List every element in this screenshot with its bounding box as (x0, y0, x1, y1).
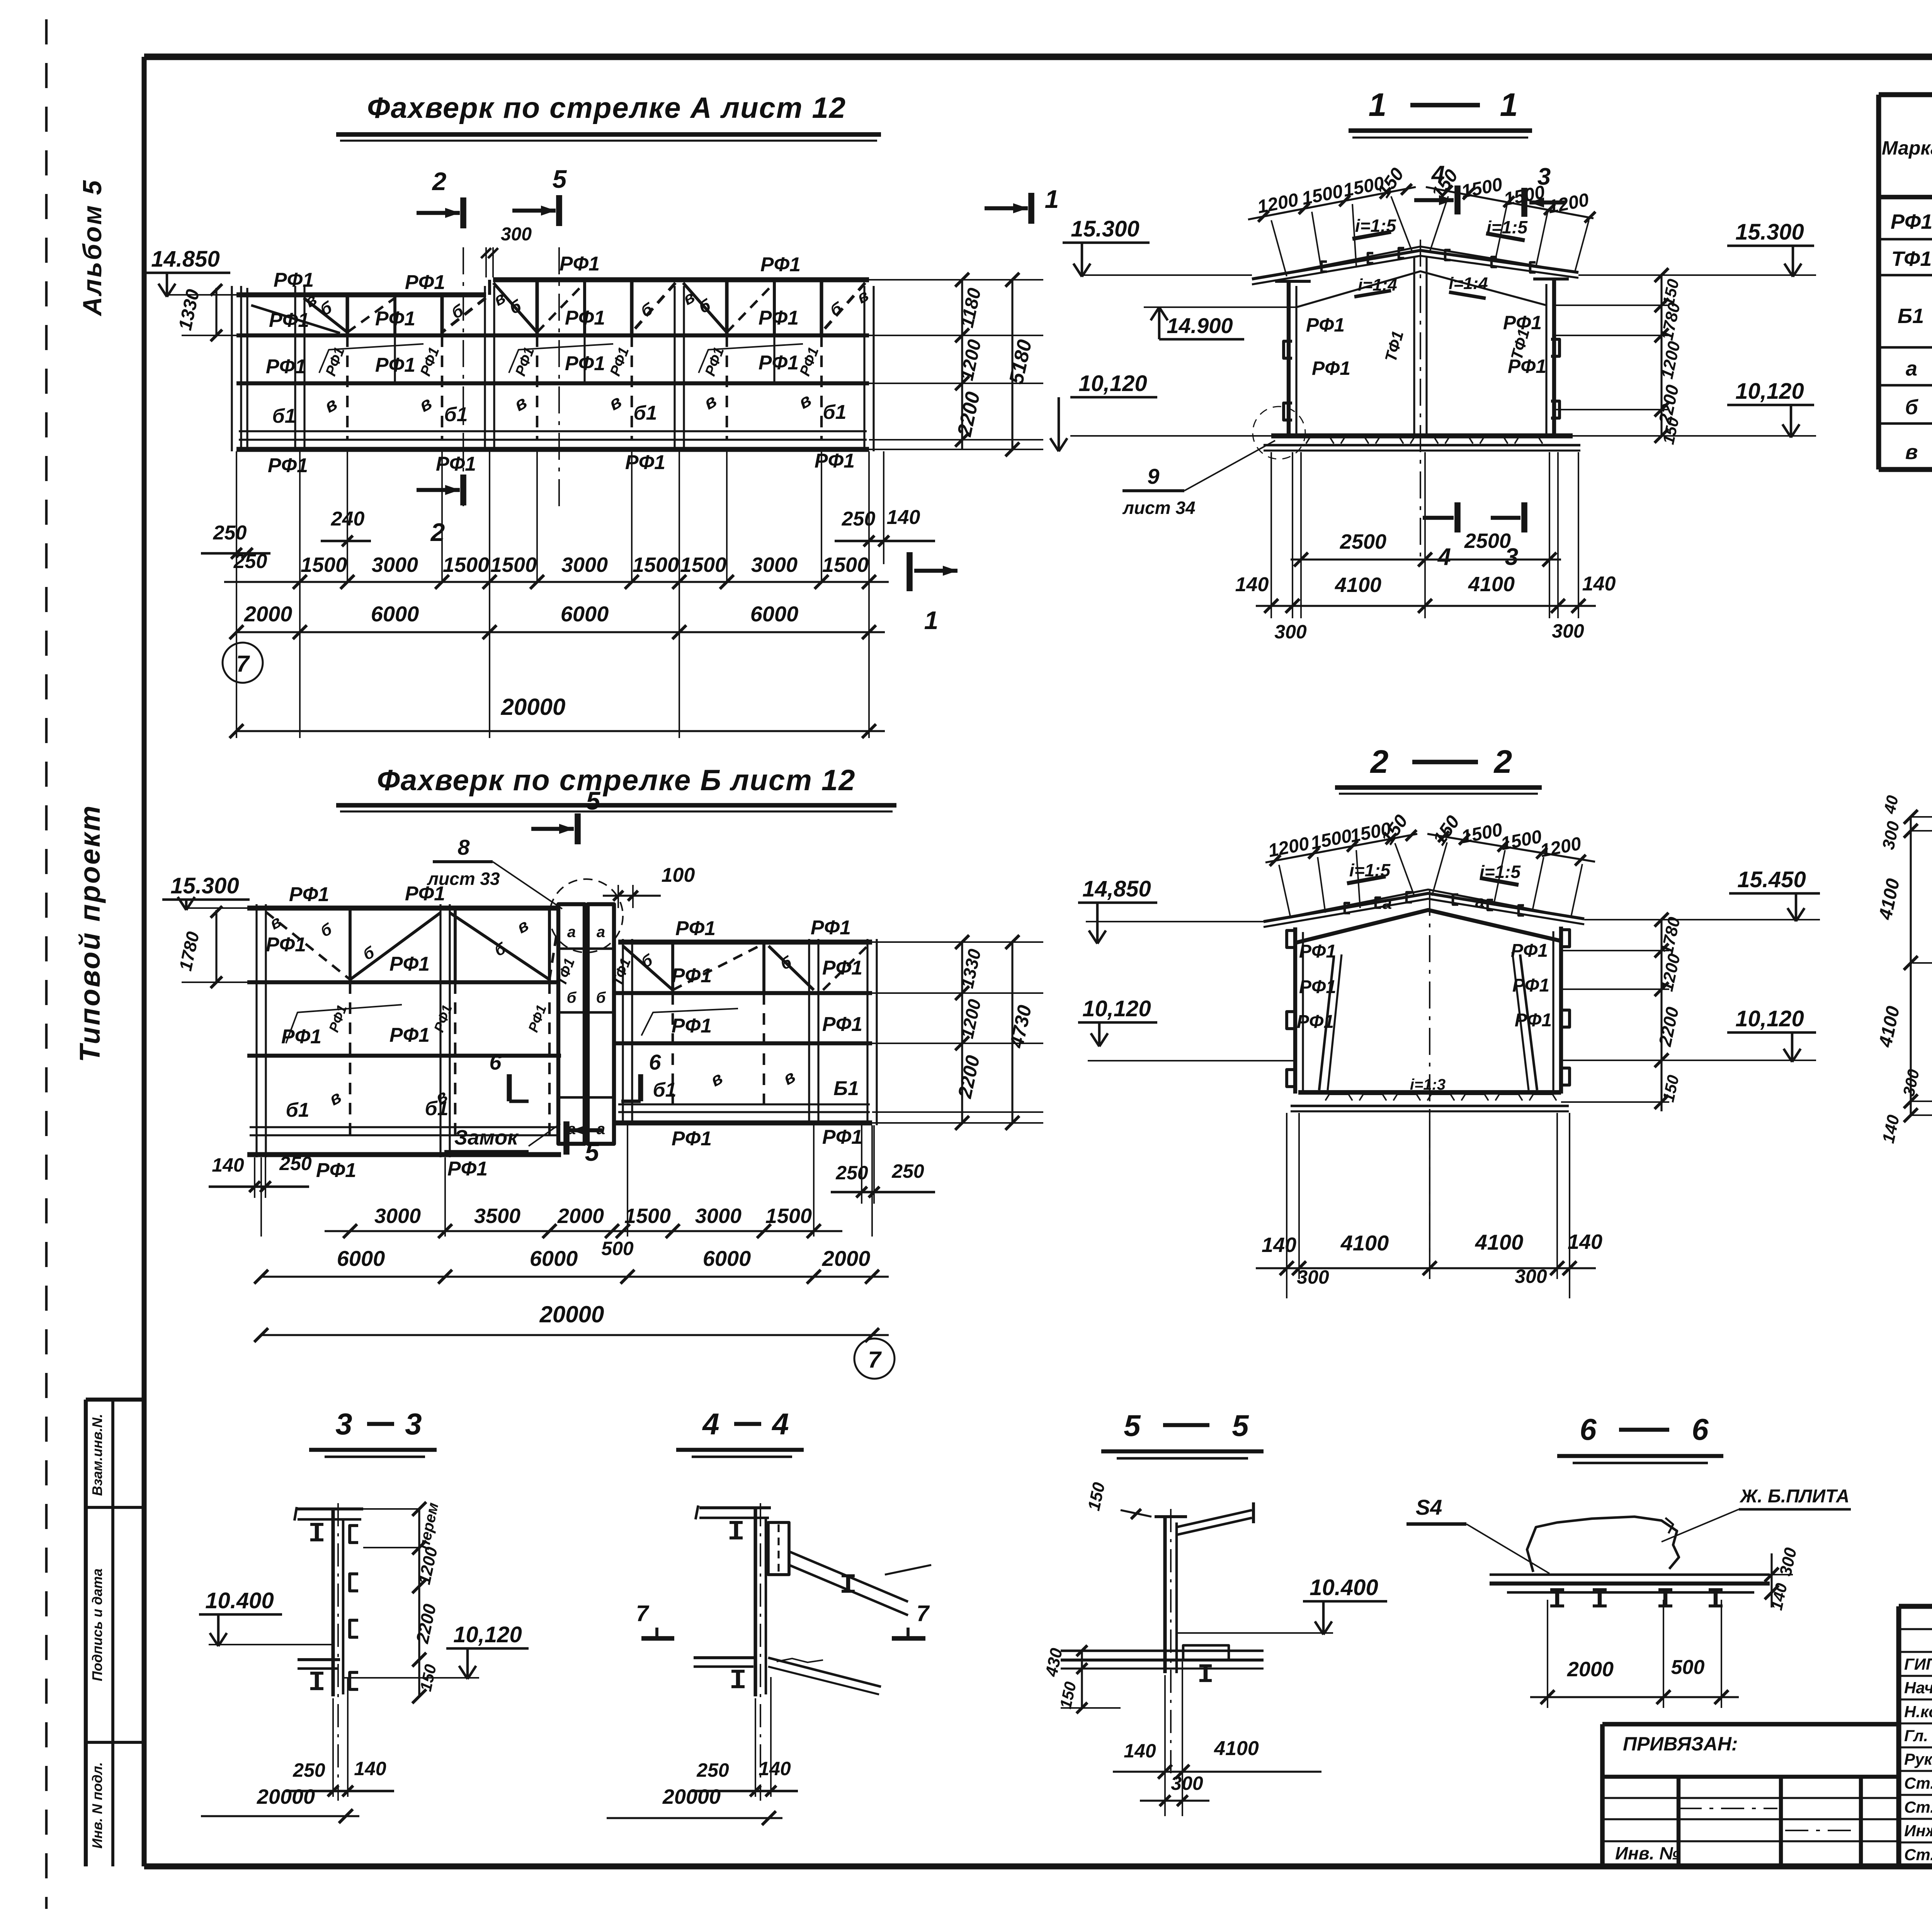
svg-text:РФ1: РФ1 (1299, 941, 1336, 962)
svg-text:1500: 1500 (633, 553, 679, 577)
svg-text:250: 250 (293, 1759, 325, 1781)
svg-text:6: 6 (1692, 1412, 1709, 1446)
svg-text:10.400: 10.400 (1310, 1575, 1378, 1600)
svg-text:300: 300 (1297, 1266, 1329, 1288)
svg-text:РФ1: РФ1 (822, 1126, 862, 1148)
svg-text:1500: 1500 (1309, 826, 1354, 854)
svg-text:6000: 6000 (750, 602, 799, 626)
svg-text:2200: 2200 (954, 1053, 984, 1101)
svg-text:б: б (1905, 396, 1918, 419)
svg-text:1: 1 (1369, 87, 1387, 123)
svg-text:250: 250 (842, 508, 876, 530)
svg-text:в: в (510, 392, 531, 415)
svg-text:РФ1: РФ1 (672, 1128, 712, 1150)
svg-text:Ж. Б.ПЛИТА: Ж. Б.ПЛИТА (1739, 1486, 1850, 1507)
svg-text:в: в (266, 912, 285, 934)
svg-text:300: 300 (1900, 1068, 1923, 1098)
svg-text:1200: 1200 (957, 997, 985, 1040)
svg-text:2200: 2200 (1655, 1005, 1682, 1048)
svg-text:а: а (1475, 892, 1485, 911)
svg-text:РФ1: РФ1 (326, 1003, 350, 1034)
svg-text:3: 3 (335, 1407, 352, 1441)
svg-text:4100: 4100 (1214, 1737, 1259, 1760)
svg-text:Альбом 5: Альбом 5 (78, 179, 107, 316)
svg-text:5: 5 (586, 786, 601, 815)
svg-text:РФ1: РФ1 (815, 450, 855, 472)
svg-text:500: 500 (1671, 1656, 1705, 1679)
svg-text:РФ1: РФ1 (565, 352, 605, 375)
svg-text:Подпись и дата: Подпись и дата (89, 1568, 105, 1681)
svg-text:20000: 20000 (257, 1785, 315, 1808)
svg-text:5: 5 (553, 165, 567, 193)
svg-text:2200: 2200 (953, 390, 985, 439)
svg-text:Б1: Б1 (833, 1077, 859, 1100)
svg-text:в: в (325, 1087, 345, 1109)
svg-text:в: в (605, 391, 625, 414)
svg-text:1500: 1500 (1300, 181, 1345, 209)
svg-text:1200: 1200 (1539, 833, 1583, 861)
svg-text:1500: 1500 (822, 553, 869, 577)
svg-text:1: 1 (924, 606, 939, 634)
svg-text:2: 2 (432, 167, 447, 196)
svg-text:4100: 4100 (1340, 1231, 1389, 1255)
svg-text:250: 250 (891, 1160, 924, 1182)
svg-text:РФ1: РФ1 (389, 1024, 430, 1046)
svg-text:лист 33: лист 33 (427, 869, 500, 889)
svg-text:1200: 1200 (1256, 190, 1300, 218)
svg-text:в: в (1905, 441, 1918, 464)
svg-text:1500: 1500 (765, 1204, 812, 1228)
svg-text:4100: 4100 (1475, 1230, 1524, 1254)
svg-text:РФ1: РФ1 (417, 345, 443, 378)
svg-text:10,120: 10,120 (453, 1622, 522, 1647)
svg-text:1500: 1500 (680, 553, 726, 577)
svg-text:140: 140 (212, 1154, 244, 1176)
svg-text:в: в (415, 393, 435, 416)
svg-text:РФ1: РФ1 (405, 271, 445, 294)
svg-text:б1: б1 (272, 405, 296, 427)
svg-text:300: 300 (1171, 1772, 1203, 1794)
svg-text:РФ1: РФ1 (431, 1003, 455, 1034)
svg-text:3000: 3000 (751, 553, 798, 577)
svg-text:3000: 3000 (372, 553, 418, 577)
svg-text:а: а (1383, 894, 1392, 913)
svg-text:Б1: Б1 (1898, 304, 1924, 328)
svg-text:1780: 1780 (175, 930, 203, 973)
svg-text:Марка: Марка (1882, 137, 1932, 159)
svg-text:10.400: 10.400 (205, 1588, 274, 1613)
svg-text:ПРИВЯЗАН:: ПРИВЯЗАН: (1623, 1733, 1738, 1755)
svg-text:430: 430 (1042, 1646, 1066, 1678)
svg-text:РФ1: РФ1 (1891, 210, 1932, 233)
svg-text:300: 300 (1274, 621, 1307, 643)
svg-text:150: 150 (1378, 811, 1412, 848)
svg-text:в: в (795, 390, 815, 413)
svg-text:б: б (317, 298, 335, 320)
svg-text:140: 140 (759, 1758, 791, 1779)
svg-text:3000: 3000 (561, 553, 608, 577)
svg-text:6000: 6000 (530, 1246, 578, 1271)
svg-text:а: а (1906, 357, 1917, 380)
svg-text:1500: 1500 (1499, 827, 1544, 854)
svg-text:РФ1: РФ1 (1515, 1010, 1552, 1031)
svg-text:4: 4 (1437, 544, 1451, 570)
svg-text:40: 40 (1880, 794, 1902, 815)
svg-text:РФ1: РФ1 (269, 309, 309, 332)
svg-text:РФ1: РФ1 (512, 345, 538, 378)
svg-text:РФ1: РФ1 (447, 1158, 488, 1180)
svg-text:ТФ1: ТФ1 (1891, 247, 1932, 270)
svg-text:Ст. инж.: Ст. инж. (1904, 1798, 1932, 1816)
svg-text:РФ1: РФ1 (822, 957, 862, 979)
svg-text:6: 6 (1580, 1412, 1597, 1446)
svg-text:б1: б1 (444, 403, 468, 426)
svg-text:i=1:4: i=1:4 (1449, 274, 1488, 293)
svg-text:300: 300 (1552, 620, 1584, 642)
svg-text:3000: 3000 (695, 1204, 742, 1228)
svg-text:4: 4 (1431, 161, 1445, 188)
svg-text:РФ1: РФ1 (672, 1015, 712, 1037)
svg-text:РФ1: РФ1 (323, 345, 348, 378)
svg-text:140: 140 (1568, 1230, 1602, 1254)
svg-text:б: б (449, 301, 467, 323)
svg-text:140: 140 (1582, 573, 1616, 595)
svg-text:РФ1: РФ1 (759, 307, 799, 329)
svg-text:б1: б1 (653, 1079, 676, 1101)
svg-text:РФ1: РФ1 (1312, 357, 1350, 379)
svg-text:РФ1: РФ1 (607, 345, 633, 378)
svg-text:РФ1: РФ1 (268, 454, 308, 477)
svg-text:1500: 1500 (490, 553, 537, 577)
svg-text:РФ1: РФ1 (375, 354, 415, 376)
svg-text:2000: 2000 (557, 1204, 604, 1228)
svg-text:10,120: 10,120 (1735, 1006, 1804, 1031)
svg-text:500: 500 (601, 1238, 634, 1259)
svg-text:3000: 3000 (374, 1204, 421, 1228)
svg-text:140: 140 (1124, 1740, 1156, 1762)
svg-text:2: 2 (1493, 743, 1512, 780)
svg-text:а: а (567, 924, 576, 941)
svg-text:140: 140 (354, 1758, 386, 1779)
svg-text:250: 250 (213, 522, 247, 544)
svg-text:РФ1: РФ1 (389, 953, 430, 975)
svg-text:1500: 1500 (301, 553, 347, 577)
svg-text:250: 250 (279, 1153, 312, 1174)
svg-text:РФ1: РФ1 (375, 308, 415, 330)
svg-text:6000: 6000 (371, 602, 419, 626)
svg-text:4100: 4100 (1335, 573, 1381, 597)
svg-text:1: 1 (1045, 185, 1059, 213)
svg-text:ГИП: ГИП (1904, 1655, 1932, 1673)
svg-text:в: в (700, 390, 720, 413)
svg-text:100: 100 (662, 864, 695, 886)
svg-text:14,850: 14,850 (1082, 876, 1151, 902)
svg-text:РФ1: РФ1 (822, 1013, 862, 1036)
svg-text:РФ1: РФ1 (274, 269, 314, 291)
svg-text:Инв. N подл.: Инв. N подл. (89, 1762, 105, 1849)
svg-text:1500: 1500 (443, 553, 489, 577)
svg-text:15.300: 15.300 (1071, 216, 1139, 242)
svg-text:б1: б1 (823, 401, 846, 424)
svg-text:б: б (638, 951, 655, 971)
svg-text:5180: 5180 (1005, 338, 1036, 386)
svg-text:Типовой проект: Типовой проект (74, 804, 106, 1062)
svg-text:РФ1: РФ1 (316, 1159, 356, 1182)
svg-text:1180: 1180 (957, 286, 985, 329)
svg-text:1200: 1200 (957, 338, 985, 383)
svg-text:РФ1: РФ1 (565, 307, 605, 329)
svg-text:7: 7 (868, 1347, 882, 1373)
svg-text:б1: б1 (286, 1099, 309, 1121)
svg-text:250: 250 (835, 1162, 868, 1184)
svg-text:15.300: 15.300 (1735, 219, 1804, 245)
svg-text:5: 5 (1232, 1408, 1249, 1442)
svg-text:1330: 1330 (957, 947, 985, 990)
svg-text:Инв. №: Инв. № (1615, 1843, 1680, 1863)
svg-text:Замок: Замок (454, 1126, 519, 1149)
svg-text:140: 140 (1879, 1113, 1903, 1145)
svg-text:Ст. инж.: Ст. инж. (1904, 1774, 1932, 1792)
svg-text:5: 5 (1124, 1408, 1141, 1442)
svg-text:РФ1: РФ1 (289, 883, 329, 906)
svg-text:1200: 1200 (1267, 833, 1311, 861)
svg-text:150: 150 (1056, 1680, 1080, 1710)
svg-text:7: 7 (236, 651, 250, 677)
svg-text:Н.контр.: Н.контр. (1904, 1703, 1932, 1721)
svg-text:2500: 2500 (1464, 529, 1511, 553)
svg-text:в: в (514, 916, 532, 937)
svg-text:Фахверк по стрелке Б лист: Фахверк по стрелке Б лист 12 (377, 764, 856, 797)
svg-text:300: 300 (1515, 1266, 1547, 1287)
svg-text:6000: 6000 (561, 602, 609, 626)
svg-text:3: 3 (1537, 163, 1551, 190)
svg-text:4100: 4100 (1875, 1004, 1904, 1050)
svg-text:2500: 2500 (1340, 530, 1386, 553)
svg-text:РФ1: РФ1 (1299, 977, 1336, 997)
svg-text:2: 2 (1370, 743, 1389, 780)
svg-text:4100: 4100 (1468, 573, 1515, 596)
svg-text:Гл. спец.: Гл. спец. (1904, 1726, 1932, 1745)
svg-text:300: 300 (1776, 1546, 1800, 1578)
svg-text:1: 1 (1500, 87, 1518, 123)
svg-text:150: 150 (1084, 1480, 1109, 1512)
svg-text:250: 250 (696, 1759, 729, 1781)
svg-text:3: 3 (405, 1407, 422, 1441)
svg-text:300: 300 (1879, 819, 1903, 851)
svg-text:Фахверк по стрелке А: Фахверк по стрелке А лист 12 (367, 92, 846, 124)
svg-text:РФ1: РФ1 (702, 345, 728, 378)
svg-text:300: 300 (501, 224, 532, 245)
svg-text:РФ1: РФ1 (797, 345, 822, 378)
svg-text:10,120: 10,120 (1735, 379, 1804, 404)
svg-text:10,120: 10,120 (1082, 996, 1151, 1021)
svg-text:10,120: 10,120 (1078, 371, 1147, 396)
svg-text:2000: 2000 (244, 602, 293, 626)
svg-text:Нач.отд: Нач.отд (1904, 1679, 1932, 1697)
svg-text:лист 34: лист 34 (1122, 498, 1195, 518)
svg-text:150: 150 (1374, 164, 1408, 201)
svg-text:РФ1: РФ1 (281, 1026, 321, 1048)
svg-text:140: 140 (1262, 1233, 1296, 1257)
svg-text:20000: 20000 (501, 694, 566, 720)
svg-text:i=1:3: i=1:3 (1410, 1076, 1446, 1093)
svg-text:б: б (567, 989, 577, 1006)
svg-text:2000: 2000 (822, 1246, 871, 1271)
svg-text:РФ1: РФ1 (1511, 941, 1548, 961)
svg-text:20000: 20000 (662, 1785, 721, 1808)
svg-text:Рук. гр.: Рук. гр. (1904, 1750, 1932, 1768)
svg-text:Взам.инв.N.: Взам.инв.N. (89, 1414, 105, 1496)
svg-text:9: 9 (1147, 464, 1159, 488)
svg-text:РФ1: РФ1 (525, 1003, 549, 1034)
svg-text:14.850: 14.850 (151, 247, 219, 272)
svg-text:Ст. инж.: Ст. инж. (1904, 1846, 1932, 1864)
svg-text:4100: 4100 (1875, 877, 1904, 922)
svg-text:в: в (779, 1066, 799, 1089)
svg-text:140: 140 (887, 506, 920, 529)
svg-text:б: б (596, 989, 606, 1006)
svg-text:15.300: 15.300 (170, 873, 239, 898)
svg-text:РФ1: РФ1 (266, 356, 306, 378)
svg-text:6000: 6000 (337, 1246, 385, 1271)
svg-text:РФ1: РФ1 (672, 964, 712, 987)
svg-text:4: 4 (702, 1407, 719, 1441)
svg-text:в: в (707, 1068, 726, 1090)
svg-text:РФ1: РФ1 (1512, 975, 1549, 996)
svg-text:15.450: 15.450 (1737, 867, 1806, 892)
svg-text:ТФ1: ТФ1 (1381, 329, 1407, 364)
svg-text:б1: б1 (633, 402, 657, 424)
svg-text:7: 7 (636, 1601, 650, 1626)
svg-text:в: в (321, 393, 341, 417)
svg-text:а: а (597, 924, 605, 941)
svg-text:S4: S4 (1416, 1495, 1442, 1519)
svg-text:б: б (318, 920, 335, 941)
svg-text:2200: 2200 (412, 1602, 440, 1645)
svg-text:РФ1: РФ1 (760, 253, 801, 276)
svg-text:150: 150 (1659, 1073, 1683, 1104)
svg-text:5: 5 (585, 1138, 600, 1166)
svg-text:20000: 20000 (539, 1301, 604, 1327)
svg-text:Инженер: Инженер (1904, 1822, 1932, 1840)
svg-text:1500: 1500 (624, 1204, 671, 1228)
svg-text:6000: 6000 (703, 1246, 751, 1271)
svg-text:РФ1: РФ1 (1297, 1012, 1334, 1032)
svg-text:7: 7 (917, 1601, 930, 1626)
svg-text:РФ1: РФ1 (266, 934, 306, 956)
svg-text:3500: 3500 (474, 1204, 520, 1228)
svg-text:в: в (854, 286, 872, 308)
svg-text:1500: 1500 (1460, 820, 1504, 847)
svg-text:4: 4 (771, 1407, 789, 1441)
svg-text:РФ1: РФ1 (675, 917, 716, 940)
svg-text:РФ1: РФ1 (1306, 314, 1345, 336)
svg-text:6: 6 (489, 1050, 502, 1074)
svg-text:РФ1: РФ1 (560, 253, 600, 275)
svg-text:1500: 1500 (1460, 174, 1504, 202)
svg-text:2000: 2000 (1567, 1658, 1614, 1681)
svg-text:14.900: 14.900 (1167, 313, 1233, 338)
svg-text:8: 8 (457, 835, 470, 859)
svg-text:РФ1: РФ1 (759, 352, 799, 374)
svg-text:6: 6 (649, 1050, 661, 1074)
svg-text:140: 140 (1235, 573, 1269, 596)
svg-text:б: б (638, 299, 656, 321)
svg-text:РФ1: РФ1 (811, 917, 851, 939)
